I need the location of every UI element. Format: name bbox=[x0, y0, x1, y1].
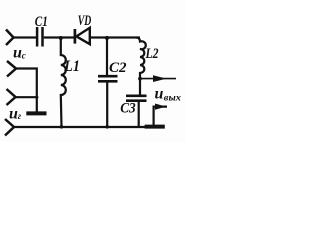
arrowhead upper output bbox=[153, 75, 167, 82]
svg-text:L1: L1 bbox=[63, 58, 79, 75]
output lower arrow wire and down lead bbox=[154, 107, 167, 126]
capacitor C3 lower stub bbox=[138, 102, 140, 127]
svg-text:L2: L2 bbox=[145, 46, 159, 62]
terminal T4 u_g input bbox=[5, 119, 14, 136]
inductor L1 bbox=[61, 38, 66, 127]
capacitor C3 plates bbox=[126, 95, 147, 98]
capacitor C1 bbox=[36, 27, 39, 47]
svg-text:VD: VD bbox=[78, 13, 92, 29]
wire diode to top-right corner bbox=[91, 36, 140, 38]
svg-text:c: c bbox=[22, 50, 26, 60]
capacitor C2 upper stub bbox=[106, 38, 108, 75]
junction node T3 join bbox=[35, 96, 38, 99]
svg-text:C1: C1 bbox=[35, 14, 48, 30]
capacitor C2 plates bbox=[98, 75, 118, 78]
junction node C2 bottom bbox=[105, 125, 109, 129]
ground bar left bbox=[26, 111, 46, 115]
terminal T3 middle input bbox=[7, 89, 16, 105]
capacitor C2 lower stub bbox=[106, 83, 108, 128]
inductor L2 with top corner bbox=[136, 38, 146, 96]
wire T1 to C1 bbox=[13, 36, 36, 38]
arrowhead lower output bbox=[155, 104, 166, 110]
svg-text:C3: C3 bbox=[120, 101, 136, 117]
diode VD triangle bbox=[76, 28, 89, 44]
wire T2 right then down bbox=[16, 69, 37, 112]
junction node at output tap bbox=[138, 77, 142, 81]
output upper arrow wire bbox=[140, 78, 176, 80]
junction node L1 bottom bbox=[60, 125, 64, 129]
diode VD cathode bar bbox=[74, 29, 77, 44]
bottom rail wire bbox=[14, 126, 151, 128]
terminal T2 u_c input bbox=[7, 61, 16, 77]
wire C1 to diode bbox=[44, 36, 74, 38]
wire T3 to vertical bbox=[15, 96, 38, 98]
ground bar right bbox=[145, 125, 165, 129]
svg-text:u: u bbox=[155, 85, 164, 102]
terminal T1 top-left input bbox=[6, 30, 14, 46]
junction node at L1 top bbox=[59, 36, 63, 40]
junction node at C2 top bbox=[105, 36, 109, 40]
svg-text:C2: C2 bbox=[109, 60, 127, 76]
svg-text:u: u bbox=[13, 44, 22, 61]
svg-text:вых: вых bbox=[164, 94, 181, 104]
svg-text:u: u bbox=[9, 105, 18, 122]
